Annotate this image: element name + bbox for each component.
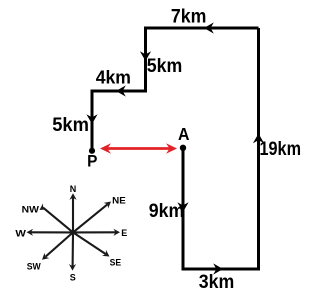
svg-text:19km: 19km <box>260 139 302 160</box>
svg-text:N: N <box>70 184 77 194</box>
svg-text:NW: NW <box>22 205 40 215</box>
svg-text:3km: 3km <box>199 272 235 292</box>
svg-text:4km: 4km <box>96 67 131 87</box>
svg-text:A: A <box>178 124 190 144</box>
svg-text:S: S <box>70 272 76 282</box>
svg-text:P: P <box>87 153 97 171</box>
svg-text:W: W <box>15 228 26 238</box>
svg-text:E: E <box>121 228 127 238</box>
svg-text:9km: 9km <box>149 201 185 222</box>
svg-text:SW: SW <box>27 261 41 271</box>
svg-text:7km: 7km <box>171 6 207 28</box>
svg-text:5km: 5km <box>147 56 183 77</box>
svg-text:5km: 5km <box>52 115 89 136</box>
svg-text:NE: NE <box>112 195 126 205</box>
svg-text:SE: SE <box>110 257 122 267</box>
